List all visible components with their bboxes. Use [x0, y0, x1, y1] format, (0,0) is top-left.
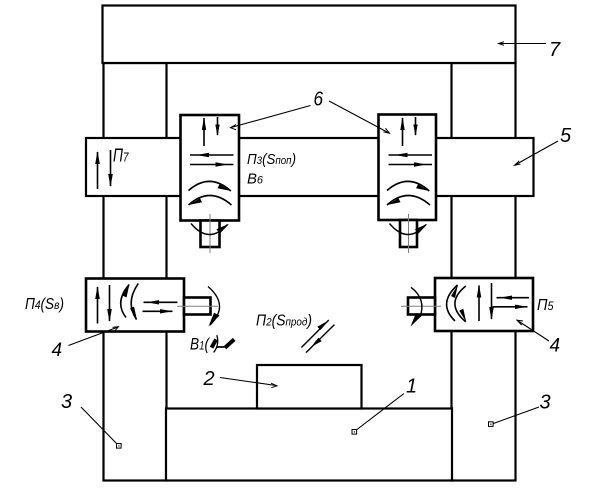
label V6 — [247, 171, 264, 188]
leader 4 left — [69, 327, 119, 346]
label P7 — [113, 146, 129, 166]
right head upper rotation arc — [387, 181, 430, 191]
left head horizontal arrow left — [190, 153, 234, 157]
left spindle rotation arrow — [191, 224, 229, 235]
left side head outer arc — [121, 284, 130, 318]
bed 1 — [166, 409, 452, 481]
svg-text:4: 4 — [550, 336, 561, 357]
leader 1 — [352, 394, 404, 435]
label P4 Sv — [25, 296, 64, 313]
svg-text:П5: П5 — [537, 297, 554, 314]
left side head horizontal arrow right — [143, 309, 173, 313]
label P5 — [537, 297, 554, 314]
left side head inner arc — [130, 284, 138, 321]
left column 3 — [104, 63, 167, 481]
right side head horizontal arrow right — [493, 305, 528, 309]
label 7 — [549, 39, 561, 61]
left head horizontal arrow right — [190, 162, 234, 166]
svg-text:2: 2 — [203, 368, 215, 390]
right column 3 — [452, 63, 516, 481]
label 4 right — [550, 336, 561, 357]
right side spindle centerline — [401, 305, 441, 307]
svg-text:3: 3 — [61, 391, 72, 413]
left head up arrow — [202, 117, 206, 146]
left spindle centerline — [209, 214, 211, 253]
leader 4 right — [517, 320, 549, 341]
right head horizontal arrow right — [389, 162, 433, 166]
svg-text:1: 1 — [406, 376, 417, 398]
left side head 4 — [86, 279, 184, 332]
right side head inner arc — [455, 286, 466, 322]
leader 7 — [499, 42, 547, 46]
right head lower rotation arc — [387, 196, 430, 206]
left side spindle rotation arrow — [208, 287, 220, 327]
left side head up arrow — [95, 286, 100, 324]
left spindle — [201, 221, 220, 248]
svg-text:7: 7 — [549, 39, 561, 61]
crossbeam up arrow — [95, 151, 100, 189]
leader 6 right — [329, 101, 390, 133]
label 6 — [314, 89, 324, 111]
svg-text:6: 6 — [314, 89, 324, 111]
label 1 — [406, 376, 417, 398]
label 3 left — [61, 391, 72, 413]
crossbeam down arrow — [108, 150, 113, 187]
left head down arrow — [215, 117, 219, 136]
label 3 right — [540, 392, 551, 414]
label 2 — [203, 368, 215, 390]
svg-text:4: 4 — [52, 340, 63, 361]
right side head outer arc — [447, 285, 458, 322]
P2 feed arrow up-right — [301, 320, 328, 348]
leader 3 right — [489, 407, 540, 426]
right head horizontal arrow left — [389, 153, 433, 157]
right side spindle — [408, 298, 435, 315]
svg-text:П4(Sв): П4(Sв) — [25, 296, 64, 313]
left head lower rotation arc — [189, 196, 232, 206]
left spindle head 6 — [181, 115, 240, 221]
right head down arrow — [413, 117, 417, 136]
svg-text:5: 5 — [560, 125, 572, 147]
right side head down arrow — [489, 283, 494, 320]
right spindle — [400, 220, 417, 247]
right side head 4 — [435, 278, 533, 331]
left side spindle centerline — [177, 305, 218, 307]
right side head up arrow — [477, 285, 482, 322]
leader 2 — [220, 378, 277, 388]
right spindle rotation arrow — [390, 224, 428, 235]
svg-text:3: 3 — [540, 392, 551, 414]
leader 6 left — [231, 106, 311, 130]
left side spindle — [184, 298, 211, 315]
label P3 Spop — [247, 151, 296, 168]
right spindle head 6 — [379, 115, 437, 221]
right spindle centerline — [408, 214, 410, 253]
top beam 7 — [103, 6, 516, 64]
label 5 — [560, 125, 572, 147]
left side head down arrow — [107, 285, 112, 322]
label V1 rotation — [190, 335, 234, 354]
label 4 left — [52, 340, 63, 361]
crossbeam 5 — [86, 138, 534, 196]
right side spindle rotation arrow — [411, 287, 422, 326]
leader 3 left — [81, 407, 121, 448]
leader 5 — [515, 141, 559, 165]
P2 feed arrow down-left — [306, 325, 334, 353]
label P2 Sprod — [256, 313, 312, 330]
right side head horizontal arrow left — [497, 296, 530, 300]
workpiece 2 — [257, 365, 362, 409]
right head up arrow — [400, 117, 404, 146]
left side head horizontal arrow left — [144, 300, 178, 304]
left head upper rotation arc — [189, 181, 232, 191]
